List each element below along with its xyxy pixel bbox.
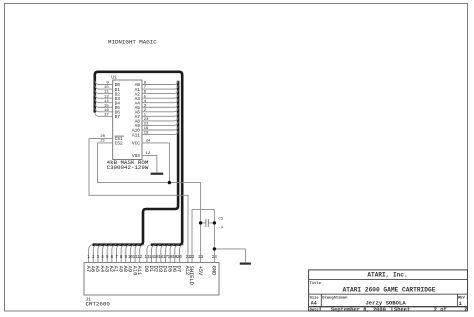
svg-text:+5V: +5V [197, 266, 203, 276]
svg-text:22: 22 [144, 123, 149, 127]
junction C1 left (+5V) [199, 221, 202, 224]
J1 pin 21 (A12) [184, 256, 191, 275]
wire U1 pin 7 (A1) to address bus [142, 85, 178, 90]
svg-text:24: 24 [212, 256, 218, 260]
svg-text:1: 1 [144, 113, 147, 117]
J1 pin 17 (D4) [162, 245, 170, 272]
J1 pin 24 (GND) [211, 256, 218, 275]
wire GND branch to ground symbol [214, 249, 245, 262]
svg-text:13: 13 [104, 95, 109, 99]
J1 pin 22 (SHIELD) [188, 256, 195, 285]
wire U1 pin 8 (A0) to address bus [142, 81, 178, 86]
svg-text:12: 12 [137, 256, 143, 260]
svg-text:22: 22 [189, 256, 195, 260]
wire U1 pin 14 (D4) to data bus [95, 99, 113, 104]
svg-text:A4: A4 [311, 300, 317, 306]
J1 pin 1 (A7) [85, 245, 93, 272]
address bus (thick: U1 A0-A11 to J1 pins 1-12) [92, 81, 178, 245]
svg-text:21: 21 [100, 140, 105, 144]
svg-text:CS2: CS2 [115, 141, 123, 147]
J1 pin 2 (A6) [89, 245, 97, 272]
svg-text:3: 3 [144, 104, 147, 108]
wire U1 pin 1 (A7) to address bus [142, 113, 178, 118]
J1 pin 12 (A11) [136, 245, 144, 276]
svg-text:ATARI 2600 GAME CARTRIDGE: ATARI 2600 GAME CARTRIDGE [343, 286, 436, 293]
wire U1 pin 15 (D5) to data bus [95, 103, 113, 108]
J1 pin 10 (A9) [127, 245, 135, 272]
J1 pin 18 (D5) [166, 245, 174, 272]
wire U1 pin 4 (A4) to address bus [142, 99, 178, 104]
wire U1 pin 9 (D0) to data bus [95, 81, 113, 86]
svg-text:24: 24 [146, 140, 151, 144]
svg-text:A11: A11 [136, 266, 142, 276]
svg-text:Draughtsman: Draughtsman [322, 296, 348, 301]
wire U1 pin 19 (A10) to address bus [142, 126, 178, 131]
svg-text:11: 11 [104, 91, 109, 95]
J1 pin 23 (+5V) [197, 256, 204, 276]
svg-text:U1: U1 [111, 75, 117, 81]
J1 pin 8 (A0) [117, 245, 125, 272]
wire U1 pin 17 (D7) to data bus [95, 113, 113, 118]
J1 pin 14 (D1) [148, 245, 156, 272]
wire U1 pin 22 (A9) to address bus [142, 122, 178, 127]
svg-text:2: 2 [464, 307, 467, 313]
J1 pin 3 (A5) [94, 245, 102, 272]
wire U1 pin 24 VCC down to +5V net [142, 140, 169, 183]
wire U1 pin 16 (D6) to data bus [95, 108, 113, 113]
J1 pin 5 (A3) [103, 245, 111, 272]
wire U1 pin 3 (A5) to address bus [142, 103, 178, 108]
title block [309, 270, 468, 313]
svg-text:5: 5 [106, 256, 109, 260]
svg-text:Jerzy SOBOLA: Jerzy SOBOLA [365, 299, 406, 306]
svg-text:4: 4 [101, 256, 104, 260]
wire U1 pin 12 VSS to ground [142, 152, 157, 172]
svg-text:ATARI, Inc.: ATARI, Inc. [367, 272, 407, 279]
svg-text:19: 19 [144, 127, 149, 131]
J1 pin 15 (D2) [152, 245, 160, 272]
svg-text:7: 7 [144, 86, 147, 90]
J1 pin 7 (A1) [113, 245, 121, 272]
J1 pin 6 (A2) [108, 245, 116, 272]
capacitor C1 0.1uF (+5V to GND) [201, 218, 224, 231]
svg-text:2: 2 [144, 109, 147, 113]
svg-text:1: 1 [459, 301, 462, 307]
wire U1 pin 10 (D1) to data bus [95, 85, 113, 90]
J1 pin 13 (D0) [143, 245, 151, 272]
connector J1 CRT2600 body [84, 263, 219, 308]
svg-text:September 8, 2000: September 8, 2000 [331, 307, 386, 313]
svg-text:SHIELD: SHIELD [188, 266, 194, 285]
svg-text:2 of: 2 of [434, 307, 447, 313]
svg-text:12: 12 [146, 152, 151, 156]
svg-text:D7: D7 [176, 266, 182, 272]
J1 pin 4 (A4) [99, 245, 107, 272]
svg-text:23: 23 [144, 118, 149, 122]
junction C1 right (GND) [213, 221, 216, 224]
svg-text:15: 15 [104, 104, 109, 108]
svg-text:Date:: Date: [310, 308, 321, 312]
wire J1 pin 22 SHIELD to GND net [192, 210, 214, 263]
J1 pin 19 (D6) [171, 245, 179, 272]
svg-text:4: 4 [144, 100, 147, 104]
J1 pin 11 (A10) [131, 245, 139, 276]
junction GND branch [213, 247, 216, 250]
wire U1 pin 5 (A3) to address bus [142, 94, 178, 99]
svg-text:MIDNIGHT MAGIC: MIDNIGHT MAGIC [108, 38, 157, 45]
ground (VSS) [151, 173, 164, 175]
J1 pin 20 (D7) [176, 245, 184, 272]
svg-text:10: 10 [104, 86, 109, 90]
svg-text:A11: A11 [132, 132, 140, 138]
svg-text:1: 1 [87, 256, 90, 260]
ROM U1 (4kB mask ROM) [111, 75, 142, 160]
svg-text:7: 7 [115, 256, 118, 260]
wire U1 pin 11 (D2) to data bus [95, 90, 113, 95]
svg-text:Title: Title [310, 281, 322, 286]
data bus (thick: U1 D0-D7 to J1 pins 13-20) [95, 72, 182, 245]
svg-text:5: 5 [144, 95, 147, 99]
svg-text:14: 14 [104, 100, 109, 104]
wire U1 pin 6 (A2) to address bus [142, 90, 178, 95]
svg-text:VCC: VCC [132, 141, 140, 147]
J1 pin 16 (D3) [157, 245, 165, 272]
svg-text:9: 9 [106, 82, 109, 86]
wire GND net vertical (J1 pin 24) [213, 210, 215, 263]
svg-text:16: 16 [104, 109, 109, 113]
svg-text:8: 8 [120, 256, 123, 260]
svg-text:VSS: VSS [132, 153, 140, 159]
svg-text:3: 3 [97, 256, 100, 260]
svg-text:2: 2 [92, 256, 95, 260]
svg-text:6: 6 [144, 91, 147, 95]
svg-text:GND: GND [211, 266, 217, 276]
svg-text:C1: C1 [218, 218, 223, 222]
svg-text:.1: .1 [218, 226, 223, 230]
svg-text:18: 18 [144, 132, 149, 136]
svg-text:Sheet: Sheet [394, 307, 410, 313]
svg-text:20: 20 [177, 256, 183, 260]
wire U1 pin 13 (D3) to data bus [95, 94, 113, 99]
svg-text:20: 20 [100, 135, 105, 139]
wire U1 pin 2 (A6) to address bus [142, 108, 178, 113]
J1 pin 9 (A8) [122, 245, 130, 272]
svg-text:23: 23 [198, 256, 204, 260]
wire U1 pin 20 /CS1 to J1 pin 21 (A12) [89, 135, 188, 262]
value label 4kB MASK ROM / C300042-129W [107, 159, 149, 171]
svg-text:C300042-129W: C300042-129W [107, 164, 149, 171]
junction VCC/+5V [168, 181, 171, 184]
svg-text:6: 6 [111, 256, 114, 260]
svg-text:D7: D7 [115, 114, 121, 120]
wire U1 pin 18 (A11) to address bus [142, 131, 178, 136]
svg-text:17: 17 [104, 113, 109, 117]
wire U1 pin 23 (A8) to address bus [142, 117, 178, 122]
wire U1 pin 21 CS2 to +5V net (J1 pin 23) [98, 140, 201, 263]
ground (GND) [240, 263, 251, 265]
svg-text:CRT2600: CRT2600 [86, 301, 111, 308]
svg-text:8: 8 [144, 82, 147, 86]
